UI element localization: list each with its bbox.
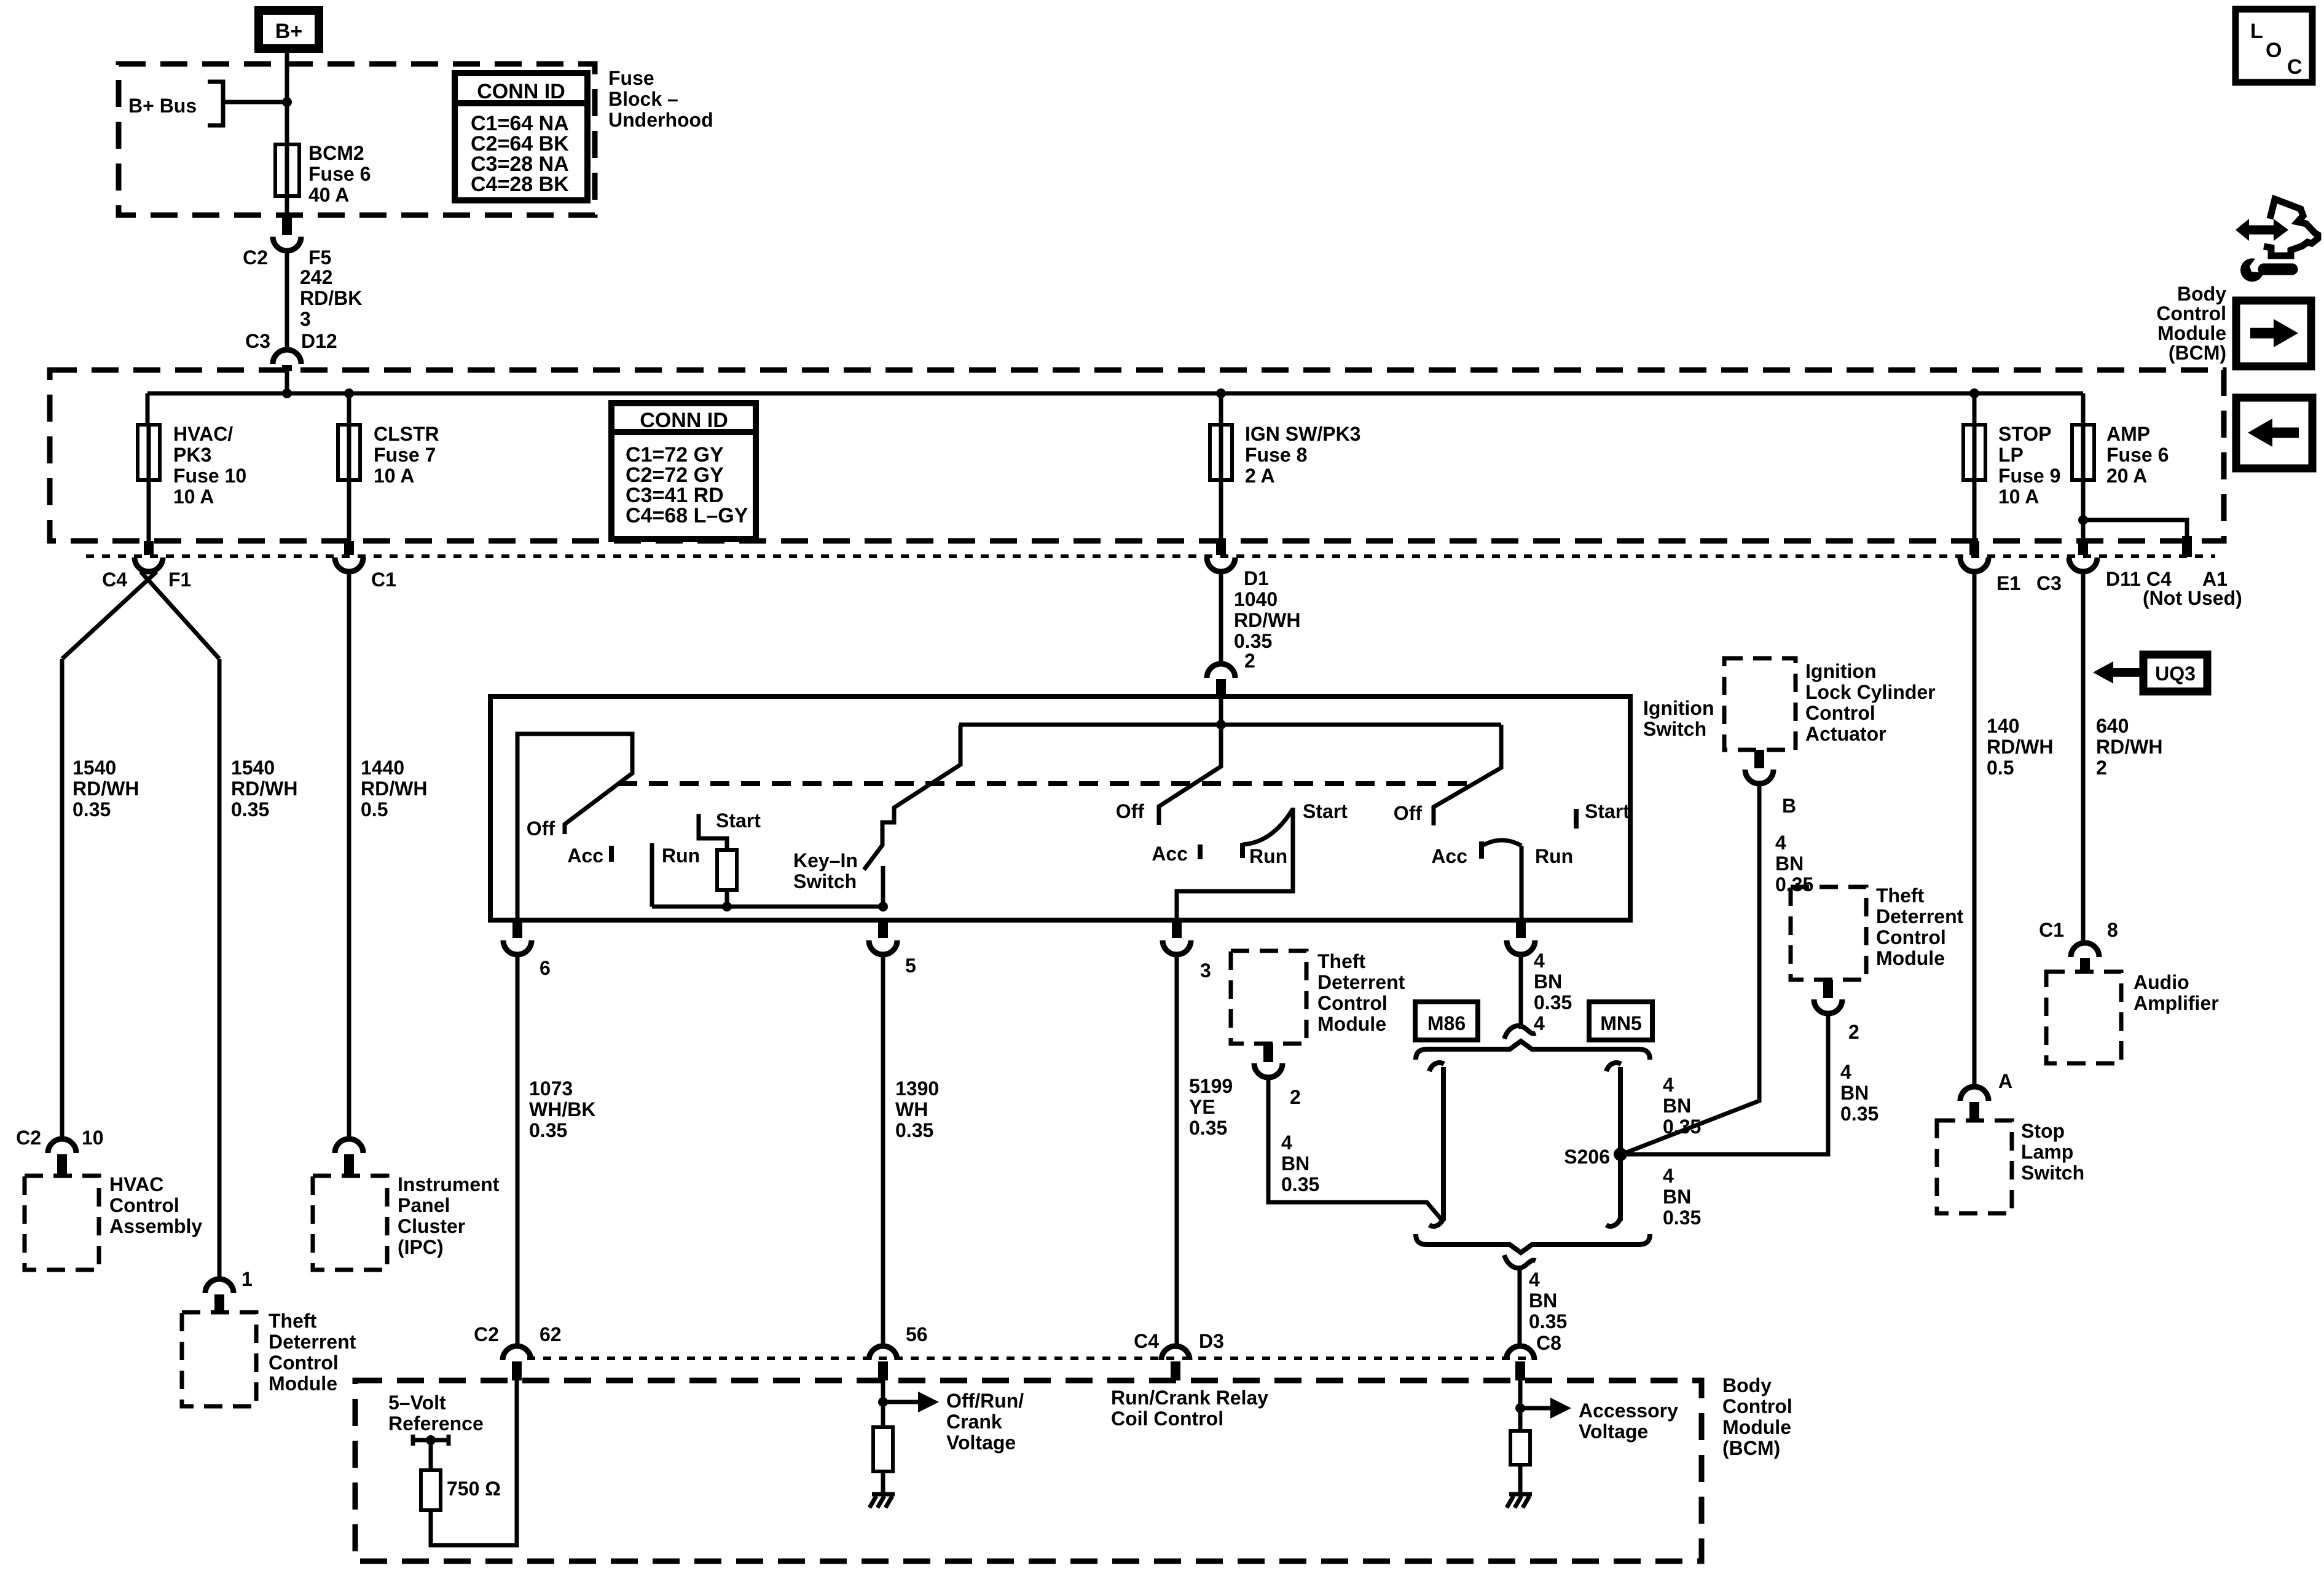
callout UQ3 [2143,655,2207,691]
svg-text:0.35: 0.35 [1663,1207,1701,1229]
svg-text:Lamp: Lamp [2021,1141,2073,1163]
resistor (accessory) [1510,1431,1530,1465]
switch pole 3 blade [1159,696,1221,825]
svg-text:Deterrent: Deterrent [269,1331,356,1353]
icon wrench [2264,264,2292,275]
svg-text:40 A: 40 A [308,184,349,206]
ground (accessory) [1507,1494,1532,1508]
svg-text:C1: C1 [371,569,396,591]
svg-text:Acc: Acc [1431,845,1467,867]
wire blade rail [959,723,1501,727]
connector C4/F1 [144,541,154,555]
svg-text:E1: E1 [1996,572,2020,594]
svg-text:MN5: MN5 [1600,1012,1642,1034]
Theft Deterrent Control Module (left) [182,1312,256,1406]
svg-text:(Not Used): (Not Used) [2143,587,2242,609]
svg-text:5199: 5199 [1189,1075,1233,1097]
svg-text:RD/WH: RD/WH [361,778,427,800]
svg-text:Off: Off [527,817,555,840]
wire 242 RD/BK 3 [285,251,289,351]
Instrument Panel Cluster (IPC) [313,1176,387,1270]
wire 4 BN 0.35 (theft to splice) [1268,1077,1443,1222]
svg-text:3: 3 [1200,959,1211,982]
svg-text:CONN ID: CONN ID [477,80,565,103]
svg-text:Control: Control [1805,702,1875,724]
svg-text:Fuse 9: Fuse 9 [1998,465,2060,487]
svg-text:1: 1 [241,1268,253,1290]
svg-text:0.35: 0.35 [529,1119,567,1141]
wire 4 BN 0.35 (B to S206) [1622,784,1759,1154]
svg-text:WH/BK: WH/BK [529,1098,595,1120]
connector table CONN ID (BCM) [611,403,756,539]
svg-text:Fuse 10: Fuse 10 [173,465,246,487]
svg-text:0.35: 0.35 [1529,1310,1567,1333]
svg-text:5: 5 [905,955,916,977]
junction bus/CLSTR [344,388,354,398]
junction bus/IGN [1216,388,1226,398]
junction bus/feed [282,388,292,398]
svg-text:4: 4 [1281,1132,1292,1154]
svg-text:F5: F5 [308,246,331,269]
svg-text:0.35: 0.35 [1840,1103,1878,1125]
icon vehicle with double arrow [2248,226,2275,235]
svg-text:242: 242 [300,266,332,288]
connector C2 62 [503,1346,531,1360]
svg-text:Voltage: Voltage [946,1431,1016,1454]
harness hook (C8 wire) [1504,1255,1536,1268]
pole 3 Acc contact [1198,845,1203,859]
svg-text:2 A: 2 A [1245,465,1275,487]
harness brace bottom [1416,1234,1650,1253]
svg-text:(IPC): (IPC) [398,1236,444,1258]
callout box arrow left [2236,398,2312,468]
svg-text:0.35: 0.35 [1281,1173,1319,1195]
svg-text:0.35: 0.35 [1775,873,1813,896]
svg-text:0.35: 0.35 [1234,630,1272,652]
connector C2 10 (HVAC control) [48,1139,76,1153]
arrow Off/Run/Crank Voltage [883,1400,918,1404]
wire main bus [147,371,2083,425]
svg-text:Theft: Theft [1876,884,1925,907]
Theft Deterrent Control Module (right) [1791,887,1866,980]
svg-text:Control: Control [1722,1395,1792,1417]
svg-text:Switch: Switch [793,870,857,892]
arrow Accessory Voltage [1520,1406,1550,1411]
svg-text:Amplifier: Amplifier [2134,992,2219,1014]
svg-text:RD/WH: RD/WH [1234,609,1300,631]
callout box arrow right [2236,301,2311,366]
svg-text:D3: D3 [1199,1330,1224,1352]
wire 1540 RD/WH 0.35 (right) [218,659,222,1280]
svg-text:Voltage: Voltage [1579,1420,1648,1443]
svg-text:Run: Run [1249,845,1287,867]
svg-text:1540: 1540 [231,757,275,779]
svg-text:YE: YE [1189,1096,1215,1118]
wire B+ Bus to feed [223,100,287,104]
Theft Deterrent Control Module (center) [1231,951,1306,1044]
svg-text:PK3: PK3 [173,444,211,466]
svg-text:BCM2: BCM2 [308,142,364,164]
dotted connector line (BCM) [527,1357,1536,1360]
pole 4 Run curve contact (pin 4) [1482,840,1521,920]
power symbol B+ [259,10,319,49]
svg-text:0.35: 0.35 [1189,1117,1227,1139]
svg-text:4: 4 [1529,1269,1540,1291]
svg-text:10 A: 10 A [374,465,414,487]
svg-text:750 Ω: 750 Ω [447,1478,501,1500]
svg-text:Off: Off [1116,800,1145,822]
svg-text:8: 8 [2107,919,2118,941]
svg-text:C: C [2287,55,2302,79]
connector C1 8 [2071,943,2099,957]
svg-text:56: 56 [906,1323,928,1345]
svg-text:Key–In: Key–In [793,849,858,872]
connector IPC [335,1139,363,1153]
svg-text:B+ Bus: B+ Bus [128,95,197,117]
connector 2 (theft center) [1263,1044,1273,1062]
svg-text:BN: BN [1663,1095,1691,1117]
connector pin 4 [1516,920,1526,938]
Ignition Lock Cylinder Control Actuator [1724,658,1796,750]
svg-text:2: 2 [2096,757,2107,779]
svg-text:RD/BK: RD/BK [300,287,362,309]
connector D11/C4 [2078,541,2088,555]
svg-text:(BCM): (BCM) [2169,342,2226,364]
connector B [1754,750,1764,768]
svg-text:C4=28 BK: C4=28 BK [471,173,569,196]
svg-text:Stop: Stop [2021,1120,2065,1142]
node 5-Volt Reference [426,1435,436,1445]
svg-text:0.5: 0.5 [361,798,388,821]
fuse AMP Fuse 6 20 A [2081,425,2086,541]
svg-text:BN: BN [1529,1290,1557,1312]
svg-text:4: 4 [1663,1165,1674,1187]
svg-text:UQ3: UQ3 [2155,663,2196,685]
svg-text:Module: Module [2157,322,2226,344]
svg-text:6: 6 [540,957,551,979]
svg-text:D12: D12 [301,330,337,352]
fuse CLSTR Fuse 7 10 A [347,425,351,541]
Audio Amplifier [2046,972,2121,1063]
svg-text:HVAC: HVAC [109,1173,163,1195]
svg-text:Theft: Theft [269,1310,317,1332]
connector 1 (theft deterrent) [205,1279,234,1293]
connector E1/C3 [1969,541,1979,555]
wire 1390 WH 0.35 [881,955,885,1346]
svg-text:62: 62 [540,1323,562,1345]
svg-text:2: 2 [1848,1021,1859,1043]
svg-text:WH: WH [895,1098,928,1120]
svg-text:Fuse: Fuse [608,67,654,89]
svg-text:Crank: Crank [946,1411,1002,1433]
svg-text:C4: C4 [102,569,127,591]
svg-text:0.35: 0.35 [895,1119,933,1141]
svg-text:Start: Start [716,809,761,832]
svg-text:B+: B+ [275,20,302,43]
svg-text:AMP: AMP [2106,423,2150,445]
label M86 [1415,1002,1478,1040]
pole 4 Acc contact [1479,841,1484,859]
svg-text:C4=68 L–GY: C4=68 L–GY [626,504,748,527]
wire C8 accessory voltage [1518,1380,1523,1431]
svg-text:C3: C3 [245,330,270,352]
svg-text:0.35: 0.35 [231,798,269,821]
svg-text:BN: BN [1281,1152,1309,1175]
svg-text:Fuse 6: Fuse 6 [308,163,371,185]
splice wire left (M86 side) [1429,1063,1444,1226]
switch pole 1 blade (pin 6) [517,734,632,920]
wire 140 RD/WH 0.5 [1973,572,1977,1087]
svg-text:10 A: 10 A [173,486,214,508]
fuse HVAC/PK3 Fuse 10 10 A [147,425,151,541]
wire 62 to 5V reference [431,1380,517,1545]
wire B+ to bus junction [285,53,289,146]
svg-text:Module: Module [1876,947,1945,969]
svg-text:Control: Control [269,1352,339,1374]
svg-text:1540: 1540 [73,757,116,779]
wire X crossover C4/F1 [62,572,219,659]
svg-text:Reference: Reference [388,1412,484,1435]
svg-text:Deterrent: Deterrent [1317,971,1405,993]
wire 4 BN 0.35 (theft right to S206) [1627,1014,1828,1154]
svg-text:4: 4 [1663,1074,1674,1096]
svg-text:10: 10 [82,1127,104,1149]
junction bus/STOP [1969,388,1979,398]
svg-text:2: 2 [1290,1086,1301,1108]
dotted connector line [86,554,2215,558]
svg-text:IGN SW/PK3: IGN SW/PK3 [1245,423,1360,445]
wire 1440 RD/WH 0.5 [347,572,351,1140]
splice wire right (MN5 side) [1606,1063,1621,1226]
svg-text:B: B [1782,795,1796,817]
svg-text:BN: BN [1663,1186,1691,1208]
svg-text:3: 3 [300,308,311,330]
svg-text:Fuse 6: Fuse 6 [2106,444,2169,466]
svg-text:1073: 1073 [529,1077,573,1100]
pole 3 Run contact [1240,843,1245,858]
mechanical linkage dashed line [618,781,1473,786]
key-in switch pivot wire (pin 5) [881,866,885,907]
svg-text:Start: Start [1303,800,1348,822]
Stop Lamp Switch [1937,1120,2012,1213]
svg-text:C8: C8 [1536,1332,1561,1354]
Body Control Module dashed box [355,1380,1702,1561]
resistor (start bypass) [717,850,737,890]
wire 1540 RD/WH 0.35 (left) [60,659,65,1140]
switch pole 4 blade [1434,725,1501,825]
svg-text:Audio: Audio [2134,971,2189,993]
svg-text:A: A [1998,1070,2012,1092]
svg-text:C2: C2 [16,1127,41,1149]
svg-text:5–Volt: 5–Volt [388,1392,446,1414]
svg-text:(BCM): (BCM) [1722,1437,1780,1459]
svg-text:STOP: STOP [1998,423,2052,445]
pole 3 blade curve to Start [1242,809,1293,845]
wire 1073 WH/BK 0.35 [516,955,520,1346]
svg-text:O: O [2266,39,2282,62]
svg-text:1440: 1440 [361,757,404,779]
svg-text:Module: Module [1722,1416,1791,1438]
svg-text:Module: Module [1317,1013,1386,1035]
connector C2 F5 [282,215,292,235]
wire 56 off/run/crank [881,1380,885,1427]
wire 4 BN 0.35 (pin 4 to splice pack) [1519,955,1523,1029]
svg-text:10 A: 10 A [1998,486,2039,508]
fuse block underhood dashed box [119,64,595,215]
svg-text:Switch: Switch [2021,1162,2084,1184]
svg-text:Off: Off [1394,802,1423,824]
svg-text:RD/WH: RD/WH [1987,736,2053,758]
connector D1 [1216,541,1226,555]
connector C3 D12 [273,350,301,364]
harness hook (pin 4) [1504,1026,1536,1039]
pole 1 Run contact [650,843,654,907]
svg-text:C2: C2 [474,1323,499,1345]
splice S206 [1614,1148,1627,1161]
svg-text:Run/Crank Relay: Run/Crank Relay [1111,1387,1268,1409]
connector pin 6 [512,920,522,938]
svg-text:CONN ID: CONN ID [640,409,728,432]
svg-text:CLSTR: CLSTR [374,423,439,445]
wire 5199 YE 0.35 [1175,955,1179,1349]
svg-text:RD/WH: RD/WH [73,778,139,800]
svg-text:Control: Control [1876,926,1946,948]
wire 640 RD/WH 2 [2081,572,2086,943]
connector C4 D3 [1161,1346,1190,1360]
svg-text:Underhood: Underhood [608,109,713,131]
svg-text:140: 140 [1987,715,2019,737]
HVAC Control Assembly [25,1176,99,1270]
svg-text:Module: Module [269,1372,337,1395]
connector 56 [869,1346,897,1360]
svg-text:LP: LP [1998,444,2024,466]
svg-text:Run: Run [662,845,700,867]
svg-text:Control: Control [2156,302,2226,325]
svg-text:Lock Cylinder: Lock Cylinder [1805,681,1936,703]
wire 4 BN 0.35 (to BCM C8) [1518,1267,1522,1347]
svg-text:Block –: Block – [608,88,678,110]
svg-text:HVAC/: HVAC/ [173,423,233,445]
svg-text:1390: 1390 [895,1077,939,1100]
svg-text:S206: S206 [1564,1146,1610,1168]
wire switch common bus [652,905,883,909]
svg-text:Off/Run/: Off/Run/ [946,1390,1024,1412]
svg-text:20 A: 20 A [2106,465,2147,487]
key-in switch blade [864,725,960,870]
wire 1040 RD/WH 0.35 [1219,572,1223,665]
connector 2 (ignition switch) [1207,664,1235,678]
svg-text:Fuse 8: Fuse 8 [1245,444,1307,466]
svg-text:4: 4 [1840,1061,1851,1083]
connector 2 (theft right) [1823,980,1833,998]
svg-text:Instrument: Instrument [398,1173,500,1195]
callout LOC [2236,9,2312,82]
svg-text:Accessory: Accessory [1579,1400,1678,1422]
ground (off/run/crank) [870,1494,895,1508]
svg-text:M86: M86 [1427,1012,1466,1034]
pole 1 Acc contact [609,846,614,862]
resistor 750 ohm [421,1470,441,1510]
svg-text:C1: C1 [2039,919,2064,941]
svg-text:1040: 1040 [1234,588,1278,610]
fuse BCM2 Fuse 6 40 A [285,146,289,215]
svg-text:F1: F1 [168,569,191,591]
svg-text:BN: BN [1840,1082,1869,1104]
connector pin 3 [1172,920,1182,938]
connector table CONN ID (underhood) [455,73,587,200]
svg-text:Ignition: Ignition [1805,660,1877,682]
svg-text:Deterrent: Deterrent [1876,905,1964,927]
fuse block dashed box (BCM fuses) [50,370,2224,541]
svg-text:Control: Control [1317,992,1388,1014]
svg-text:BN: BN [1534,971,1562,993]
svg-text:Body: Body [1722,1374,1772,1396]
svg-text:L: L [2250,20,2263,43]
pole 1 Start contact [699,814,727,850]
connector C1 [344,541,354,555]
svg-text:Acc: Acc [1152,843,1188,865]
svg-text:Cluster: Cluster [398,1215,465,1237]
svg-text:Switch: Switch [1643,718,1706,740]
svg-text:Panel: Panel [398,1194,450,1216]
svg-text:RD/WH: RD/WH [2096,736,2162,758]
svg-text:0.35: 0.35 [73,798,111,821]
svg-text:Coil Control: Coil Control [1111,1408,1223,1430]
svg-text:Control: Control [109,1194,179,1216]
fuse IGN SW/PK3 Fuse 8 2 A [1219,425,1223,541]
svg-text:RD/WH: RD/WH [231,778,297,800]
svg-text:Start: Start [1585,800,1630,822]
svg-text:2: 2 [1244,650,1255,672]
svg-text:640: 640 [2096,715,2129,737]
resistor (off/run/crank) [873,1427,893,1471]
fuse STOP LP Fuse 9 10 A [1973,425,1977,541]
pole 3 Start contact wire (pin 3) [1177,808,1293,920]
svg-text:Ignition: Ignition [1643,697,1714,719]
svg-text:0.5: 0.5 [1987,757,2014,779]
svg-text:C2: C2 [243,246,268,269]
svg-text:4: 4 [1775,832,1786,854]
wire AMP branch to A1 [2083,520,2187,536]
connector C8 [1506,1346,1534,1360]
connector pin 5 [878,920,888,938]
svg-text:Assembly: Assembly [109,1215,202,1237]
svg-text:Fuse 7: Fuse 7 [374,444,436,466]
svg-text:4: 4 [1534,1012,1545,1034]
harness brace top (M86/MN5) [1416,1041,1650,1060]
svg-text:BN: BN [1775,853,1804,875]
svg-text:Acc: Acc [567,845,603,867]
pole 4 Start contact [1574,809,1579,829]
svg-text:C4: C4 [1134,1330,1159,1352]
svg-text:C3: C3 [2036,572,2062,594]
svg-text:Actuator: Actuator [1805,723,1886,745]
svg-text:Body: Body [2177,283,2226,305]
svg-text:0.35: 0.35 [1534,991,1572,1014]
svg-text:D1: D1 [1244,567,1269,589]
connector A [1960,1087,1988,1101]
svg-text:Theft: Theft [1317,950,1366,972]
ignition switch box [490,696,1630,920]
label MN5 [1589,1002,1652,1040]
svg-text:Run: Run [1535,845,1573,867]
svg-text:4: 4 [1534,950,1545,972]
